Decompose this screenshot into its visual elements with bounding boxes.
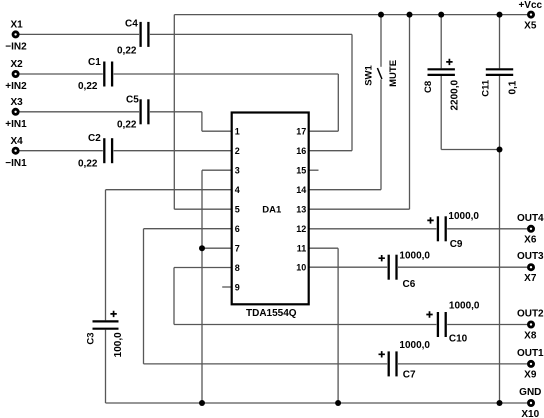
svg-text:X3: X3 bbox=[11, 97, 24, 108]
wire pin 12 to C9 bbox=[309, 228, 437, 230]
wire C11 top to rail bbox=[499, 15, 501, 69]
op-amp IC DA1 TDA1554Q body bbox=[232, 113, 309, 305]
terminal X1 bbox=[13, 32, 18, 37]
svg-text:+Vcc: +Vcc bbox=[518, 0, 542, 11]
svg-text:C9: C9 bbox=[450, 239, 463, 250]
pin numbers 1-9 bbox=[235, 127, 306, 293]
svg-text:16: 16 bbox=[296, 146, 306, 156]
svg-text:X8: X8 bbox=[524, 330, 537, 341]
svg-text:OUT4: OUT4 bbox=[517, 213, 544, 224]
capacitor C4 bbox=[139, 22, 141, 47]
wire C4 to pin 16 bbox=[150, 33, 352, 35]
svg-text:1000,0: 1000,0 bbox=[399, 340, 430, 351]
capacitor C1 bbox=[103, 62, 105, 87]
svg-text:C5: C5 bbox=[126, 94, 139, 105]
svg-text:X9: X9 bbox=[524, 370, 537, 381]
svg-text:7: 7 bbox=[235, 244, 240, 254]
wire Vcc vertical to pin 5 bbox=[173, 15, 175, 210]
wire +Vcc top rail bbox=[174, 14, 527, 16]
svg-text:GND: GND bbox=[519, 387, 541, 398]
wire ground rail bbox=[106, 402, 528, 404]
svg-text:TDA1554Q: TDA1554Q bbox=[246, 308, 297, 319]
wire C5 to pin 1 bbox=[150, 111, 202, 113]
svg-text:X2: X2 bbox=[11, 59, 24, 70]
svg-text:OUT1: OUT1 bbox=[517, 348, 544, 359]
junction pin7/ground line bbox=[199, 245, 205, 251]
svg-text:1000,0: 1000,0 bbox=[448, 211, 479, 222]
wire C1 to pin 17 bbox=[114, 73, 339, 75]
wire pin 14 to SW1 bbox=[309, 189, 381, 191]
svg-text:17: 17 bbox=[296, 127, 306, 137]
wire C2 to pin 2 bbox=[114, 150, 232, 152]
terminal X9 bbox=[528, 361, 533, 366]
svg-text:C6: C6 bbox=[403, 279, 416, 290]
switch SW1 lever bbox=[377, 68, 382, 79]
wire X2 to C1 bbox=[19, 73, 102, 75]
wire pin 11 to ground rail bbox=[309, 247, 338, 249]
svg-text:C8: C8 bbox=[423, 81, 434, 93]
svg-text:C2: C2 bbox=[88, 133, 101, 144]
terminal X8 bbox=[528, 322, 533, 327]
svg-text:OUT3: OUT3 bbox=[517, 251, 544, 262]
wire pin 10 to C6 bbox=[309, 266, 388, 268]
svg-text:5: 5 bbox=[235, 205, 240, 215]
svg-text:3: 3 bbox=[235, 166, 240, 176]
svg-text:1000,0: 1000,0 bbox=[399, 250, 430, 261]
svg-text:10: 10 bbox=[296, 263, 306, 273]
junction C8-C11 bbox=[497, 147, 503, 153]
svg-text:+IN1: +IN1 bbox=[5, 119, 27, 130]
svg-text:2: 2 bbox=[235, 146, 240, 156]
wire OUT2 row pin8 to C10 bbox=[174, 324, 436, 326]
svg-text:13: 13 bbox=[296, 205, 306, 215]
wire pin 6 to C7 row bbox=[144, 228, 232, 230]
capacitor C7 bbox=[388, 351, 390, 376]
svg-text:8: 8 bbox=[235, 263, 240, 273]
svg-text:0,22: 0,22 bbox=[78, 159, 98, 170]
wire C8 bottom link bbox=[440, 76, 442, 150]
capacitor C6 bbox=[388, 255, 390, 280]
svg-text:2200,0: 2200,0 bbox=[449, 79, 460, 110]
wire pin 3 and pin 7 to ground bbox=[202, 169, 232, 171]
svg-text:X4: X4 bbox=[11, 136, 24, 147]
terminal X3 bbox=[13, 109, 18, 114]
svg-text:X7: X7 bbox=[524, 273, 537, 284]
wire C8 top to rail bbox=[440, 15, 442, 69]
junction SW1/top rail bbox=[378, 12, 384, 18]
junction C11/ground rail bbox=[497, 400, 503, 406]
wire pin 13 to top rail bbox=[309, 208, 410, 210]
wire pin 4 to C3 bbox=[106, 189, 232, 191]
junction pin11/ground rail bbox=[335, 400, 341, 406]
svg-text:C3: C3 bbox=[86, 332, 97, 344]
svg-text:15: 15 bbox=[296, 166, 306, 176]
svg-text:C10: C10 bbox=[449, 333, 468, 344]
svg-text:DA1: DA1 bbox=[262, 205, 282, 216]
svg-text:X1: X1 bbox=[11, 20, 24, 31]
junction ground line/rail bbox=[199, 400, 205, 406]
wire pin 15 stub bbox=[309, 169, 319, 171]
svg-text:X5: X5 bbox=[524, 20, 537, 31]
svg-text:OUT2: OUT2 bbox=[517, 309, 544, 320]
wire X1 to C4 bbox=[19, 33, 139, 35]
svg-text:C1: C1 bbox=[88, 57, 101, 68]
capacitor C11 bbox=[486, 68, 513, 70]
svg-text:4: 4 bbox=[235, 185, 240, 195]
svg-text:X10: X10 bbox=[521, 409, 539, 418]
wire X4 to C2 bbox=[19, 150, 102, 152]
wire C3 to ground rail bbox=[105, 330, 107, 403]
terminal X7 bbox=[528, 265, 533, 270]
wire C11 bottom to ground rail bbox=[499, 76, 501, 403]
capacitor C5 bbox=[139, 99, 141, 124]
wire pin 9 stub bbox=[222, 286, 232, 288]
svg-text:SW1: SW1 bbox=[363, 64, 374, 85]
svg-text:0,22: 0,22 bbox=[117, 45, 137, 56]
wire pin 8 to OUT2 row bbox=[174, 267, 232, 269]
wire X3 to C5 bbox=[19, 111, 139, 113]
terminal X6 bbox=[528, 226, 533, 231]
capacitor C9 bbox=[437, 216, 439, 241]
svg-text:C4: C4 bbox=[125, 18, 138, 29]
wire OUT1 row pin6 to C7 bbox=[144, 363, 388, 365]
terminal X5 bbox=[528, 12, 533, 17]
capacitor C3 bbox=[93, 320, 119, 322]
svg-text:6: 6 bbox=[235, 224, 240, 234]
wire C6 to X7 bbox=[398, 266, 527, 268]
terminal X2 bbox=[13, 71, 18, 76]
svg-text:100,0: 100,0 bbox=[113, 332, 124, 357]
svg-text:12: 12 bbox=[296, 224, 306, 234]
svg-text:9: 9 bbox=[235, 282, 240, 292]
capacitor C2 bbox=[103, 138, 105, 163]
svg-text:0,1: 0,1 bbox=[508, 80, 519, 94]
junction C11/top rail bbox=[497, 12, 503, 18]
capacitor C10 bbox=[437, 312, 439, 337]
svg-text:1000,0: 1000,0 bbox=[449, 300, 480, 311]
svg-text:−IN2: −IN2 bbox=[5, 42, 27, 53]
svg-text:11: 11 bbox=[297, 244, 307, 254]
svg-text:1: 1 bbox=[235, 127, 240, 137]
svg-text:MUTE: MUTE bbox=[388, 60, 399, 87]
capacitor C8 bbox=[428, 68, 455, 70]
svg-text:14: 14 bbox=[296, 185, 306, 195]
junction C8/top rail bbox=[438, 12, 444, 18]
svg-text:X6: X6 bbox=[524, 235, 537, 246]
svg-text:C11: C11 bbox=[481, 79, 492, 97]
terminal X4 bbox=[13, 148, 18, 153]
svg-text:+IN2: +IN2 bbox=[5, 81, 27, 92]
svg-text:−IN1: −IN1 bbox=[5, 158, 27, 169]
wire SW1 to top rail bbox=[380, 15, 382, 67]
wire C7 to X9 bbox=[398, 363, 527, 365]
wire C9 to X6 bbox=[447, 228, 527, 230]
terminal X10 bbox=[528, 400, 533, 405]
svg-text:0,22: 0,22 bbox=[117, 120, 137, 131]
junction pin13/top rail bbox=[407, 12, 413, 18]
svg-text:0,22: 0,22 bbox=[78, 81, 98, 92]
svg-text:C7: C7 bbox=[403, 370, 416, 381]
wire C10 to X8 bbox=[447, 324, 527, 326]
